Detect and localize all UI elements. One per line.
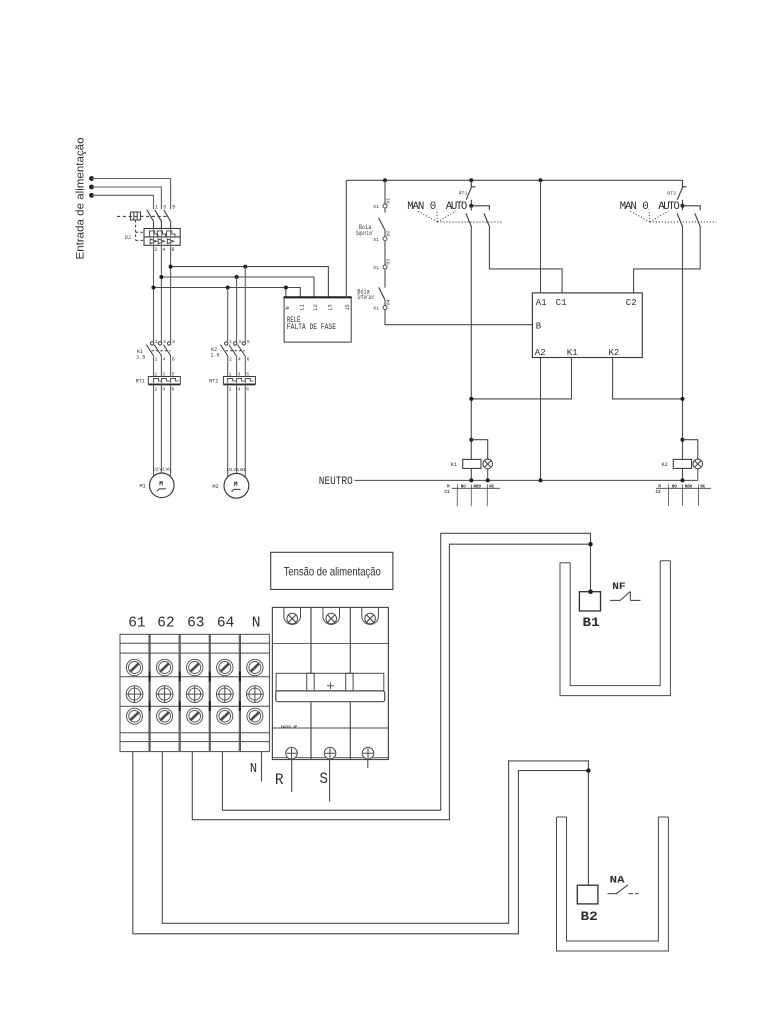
svg-text:N: N	[252, 615, 261, 631]
svg-text:K2: K2	[662, 462, 668, 468]
terminal strip 64	[210, 634, 239, 751]
float switch B2	[577, 885, 598, 924]
selector S1 MAN-0-AUTO labels	[407, 201, 467, 213]
contactor K2	[211, 339, 250, 371]
svg-text:4: 4	[162, 387, 165, 393]
motor M2	[212, 467, 248, 498]
svg-text:FAZ63 3P: FAZ63 3P	[281, 726, 297, 730]
svg-text:NEUTRO: NEUTRO	[319, 476, 353, 488]
wire phase B from DJ to K1 pole2	[160, 245, 162, 341]
wire phase A from DJ to K1 pole1	[153, 245, 155, 341]
breaker Q1 top screws	[284, 608, 379, 625]
selector S2 dotted linkage	[630, 210, 716, 223]
node phase input L1	[89, 176, 94, 181]
svg-text:W1: W1	[166, 466, 172, 472]
contact S2 MAN	[677, 206, 683, 227]
svg-text:4: 4	[238, 357, 241, 363]
svg-text:3: 3	[163, 339, 166, 345]
svg-text:NF: NF	[612, 582, 625, 593]
svg-text:NO: NO	[461, 485, 467, 489]
svg-text:M2: M2	[212, 484, 218, 490]
terminal X1:03	[383, 265, 387, 269]
svg-text:NC: NC	[700, 485, 706, 489]
wire net 63 to B1	[192, 544, 590, 820]
svg-text:MAN: MAN	[620, 201, 637, 213]
svg-text:15: 15	[345, 304, 351, 310]
wire input L3	[92, 195, 154, 209]
node phase input L2	[89, 185, 94, 190]
svg-text:4: 4	[238, 387, 241, 393]
svg-text:B: B	[536, 321, 542, 331]
svg-text:5: 5	[172, 205, 175, 211]
coil K2	[662, 438, 698, 469]
svg-text:6: 6	[246, 387, 249, 393]
svg-text:X1: X1	[373, 265, 379, 271]
svg-text:NBO: NBO	[685, 485, 693, 489]
svg-text:5: 5	[172, 339, 175, 345]
svg-text:02: 02	[385, 230, 391, 236]
svg-text:63: 63	[187, 615, 204, 631]
svg-text:03: 03	[385, 259, 391, 265]
svg-text:2: 2	[229, 357, 232, 363]
svg-text:0: 0	[430, 201, 436, 213]
svg-text:DJ: DJ	[125, 235, 131, 241]
svg-text:4: 4	[163, 357, 166, 363]
svg-text:4: 4	[162, 247, 165, 253]
wire AUTO1 to C1	[489, 227, 562, 293]
overload relay RT2	[209, 371, 255, 393]
wire AUTO2 to C2	[634, 227, 701, 293]
lamp H2	[693, 459, 703, 480]
overload relay RT1	[136, 371, 181, 393]
node float column tap	[383, 178, 387, 182]
terminal strip 61	[120, 634, 149, 751]
selector S2 MAN-0-AUTO labels	[620, 201, 680, 213]
svg-text:2: 2	[155, 357, 158, 363]
svg-text:S: S	[319, 770, 328, 788]
svg-text:K2: K2	[609, 348, 620, 358]
node phase input L3	[89, 193, 94, 198]
svg-text:6: 6	[172, 357, 175, 363]
svg-text:Superior: Superior	[356, 230, 373, 237]
breaker DJ internal pole lines	[154, 229, 171, 246]
wires RT2 to motor M2	[228, 385, 246, 477]
svg-text:3: 3	[163, 205, 166, 211]
svg-text:AUTO: AUTO	[446, 201, 468, 213]
svg-text:Tensão de alimentação: Tensão de alimentação	[284, 564, 381, 578]
node net63 join B1	[588, 542, 592, 546]
motor M1	[140, 466, 175, 497]
wire control top line	[346, 179, 682, 181]
breaker DJ thermal elements	[150, 231, 176, 237]
label box Tensão de alimentação	[271, 552, 393, 589]
svg-text:V1: V1	[233, 467, 239, 473]
svg-text:6: 6	[171, 247, 174, 253]
breaker Q1 bottom screws	[286, 747, 374, 759]
controller U1 alternator block	[532, 293, 642, 358]
wire A1	[540, 180, 542, 293]
svg-text:C2: C2	[656, 491, 662, 495]
svg-text:Inferior: Inferior	[357, 294, 374, 301]
terminal X1:01	[383, 204, 387, 208]
wire tap phase A to rele L1	[154, 288, 301, 298]
contact S2 AUTO	[683, 206, 701, 227]
terminal X1:02	[383, 237, 387, 241]
svg-text:C1: C1	[556, 298, 567, 308]
terminal strip N	[240, 634, 269, 751]
svg-text:C1: C1	[444, 491, 450, 495]
relay U2 RELE FALTA DE FASE	[284, 297, 352, 342]
svg-text:X1: X1	[373, 306, 379, 312]
svg-text:FALTA DE FASE: FALTA DE FASE	[287, 324, 336, 332]
breaker DJ switch contacts	[147, 210, 171, 229]
svg-text:RT2: RT2	[667, 191, 676, 197]
node tap C	[169, 265, 173, 269]
svg-text:2: 2	[154, 387, 157, 393]
terminal strip labels 61 62 63 64 N	[128, 615, 260, 631]
wire stub S	[329, 760, 331, 802]
wire net 61 to B2	[133, 752, 589, 934]
breaker DJ pin labels 1 3 5	[155, 205, 175, 211]
terminal row K2 aux	[656, 484, 711, 506]
node tap A	[152, 286, 156, 290]
wire A2 to neutral	[540, 358, 542, 481]
node tap B	[159, 275, 163, 279]
svg-text:N: N	[285, 306, 291, 309]
svg-text:B2: B2	[581, 909, 598, 924]
svg-text:NA: NA	[610, 875, 625, 886]
svg-text:B1: B1	[583, 615, 600, 630]
node RT1 branch tap	[469, 178, 473, 182]
svg-text:M: M	[234, 481, 238, 488]
svg-text:1: 1	[229, 339, 232, 345]
svg-text:0: 0	[642, 201, 648, 213]
wire input L2	[92, 187, 162, 209]
strip gap marks	[150, 672, 240, 712]
svg-text:A2: A2	[535, 348, 546, 358]
svg-text:NBO: NBO	[474, 485, 482, 489]
svg-text:U1: U1	[153, 466, 159, 472]
svg-text:A1: A1	[536, 298, 547, 308]
node K1 output join	[469, 397, 473, 401]
svg-text:C2: C2	[626, 298, 637, 308]
node lamp H1 on neutral	[486, 478, 490, 482]
wire tap phase B to rele L2	[161, 277, 314, 297]
contact boia inferior	[379, 287, 385, 300]
breaker DJ thermal-magnetic box	[144, 229, 180, 246]
node A2 on neutral	[539, 478, 543, 482]
svg-text:RT1: RT1	[459, 191, 468, 197]
breaker DJ linkage dashed	[117, 215, 168, 217]
wire net 64 to B1	[222, 533, 590, 810]
svg-text:K1: K1	[567, 348, 578, 358]
svg-text:1: 1	[155, 205, 158, 211]
node rele N junction	[284, 286, 288, 290]
svg-text:3: 3	[238, 339, 241, 345]
svg-text:NO: NO	[672, 485, 678, 489]
svg-text:N: N	[250, 762, 257, 777]
wire K2 pole drops	[228, 267, 246, 342]
wire phase C from DJ to K1 pole3	[170, 245, 172, 341]
svg-text:04: 04	[385, 299, 391, 305]
svg-text:V1: V1	[159, 466, 165, 472]
contact S1 MAN	[466, 206, 472, 227]
svg-text:L3: L3	[327, 304, 333, 310]
wire stub N	[261, 752, 263, 782]
svg-text:Entrada de alimentação: Entrada de alimentação	[75, 138, 87, 260]
lamp H1	[483, 459, 493, 480]
tank reservoir B1	[560, 561, 670, 696]
breaker Q1 3P outline	[272, 607, 388, 759]
node K2 pole2 tap	[235, 275, 239, 279]
wire K1 coil feed	[470, 227, 472, 480]
tank reservoir B2	[557, 817, 669, 951]
node K2 coil on neutral	[681, 478, 685, 482]
svg-text:R: R	[275, 771, 284, 789]
svg-text:AUTO: AUTO	[658, 201, 680, 213]
wire K2 coil feed	[682, 227, 684, 480]
svg-text:6: 6	[172, 387, 175, 393]
node net61 join B2	[586, 768, 590, 772]
contact symbol NA	[608, 875, 639, 894]
wire input L1	[92, 179, 171, 210]
svg-text:01: 01	[385, 198, 391, 204]
svg-text:RT2: RT2	[209, 378, 218, 384]
wire K2 output	[613, 358, 683, 399]
svg-text:64: 64	[217, 615, 234, 631]
svg-text:1.5: 1.5	[136, 354, 145, 360]
svg-text:M1: M1	[140, 483, 146, 489]
svg-text:L2: L2	[313, 304, 319, 310]
node K1 coil on neutral	[469, 478, 473, 482]
coil K1	[451, 438, 488, 469]
breaker DJ pin labels 2 4 6	[154, 247, 174, 253]
svg-text:U1: U1	[227, 467, 233, 473]
svg-text:2: 2	[154, 247, 157, 253]
node K2 output join	[681, 397, 685, 401]
svg-text:5: 5	[247, 339, 250, 345]
terminal strip 62	[150, 634, 179, 751]
node RT2 out	[680, 204, 684, 208]
wire rele output 15 up to control line	[345, 180, 347, 297]
node RT1 out	[469, 204, 473, 208]
svg-text:NC: NC	[489, 485, 495, 489]
breaker DJ test button	[131, 212, 141, 220]
svg-text:62: 62	[157, 615, 174, 631]
svg-text:1: 1	[155, 339, 158, 345]
svg-text:L1: L1	[299, 304, 305, 310]
contact boia superior	[379, 218, 385, 230]
svg-text:X1: X1	[373, 237, 379, 243]
terminal strip 63	[180, 634, 209, 751]
wires RT1 to motor M1	[154, 385, 171, 476]
node K2 pole1 tap	[226, 286, 230, 290]
svg-text:K1: K1	[451, 462, 457, 468]
node K2 pole3 tap	[243, 265, 247, 269]
svg-text:X1: X1	[373, 204, 379, 210]
svg-text:MAN: MAN	[407, 201, 424, 213]
node A1 branch tap	[539, 178, 543, 182]
wire K1 output	[471, 358, 571, 399]
float switch column wire	[385, 180, 532, 324]
breaker DJ linkage to trip unit dashed	[136, 220, 144, 240]
wire tap phase C to rele L3	[171, 267, 329, 298]
terminal row K1 aux	[444, 484, 500, 506]
wire stub T	[367, 760, 369, 769]
svg-text:RT1: RT1	[136, 378, 145, 384]
svg-text:2: 2	[229, 387, 232, 393]
breaker Q1 toggle	[276, 673, 385, 701]
svg-text:M: M	[159, 481, 163, 488]
svg-text:6: 6	[247, 357, 250, 363]
contactor K1	[136, 339, 175, 371]
selector S1 dotted linkage	[418, 210, 502, 223]
wire net 62 to B2	[162, 752, 588, 924]
float switch B1	[579, 589, 600, 630]
svg-text:W1: W1	[240, 467, 246, 473]
contact S1 AUTO	[471, 206, 489, 227]
svg-text:61: 61	[128, 615, 145, 631]
wire stub R	[291, 760, 293, 793]
svg-text:1.6: 1.6	[211, 352, 220, 358]
breaker DJ magnetic elements	[150, 239, 174, 244]
terminal X1:04	[383, 306, 387, 310]
contact symbol NF	[610, 582, 641, 601]
